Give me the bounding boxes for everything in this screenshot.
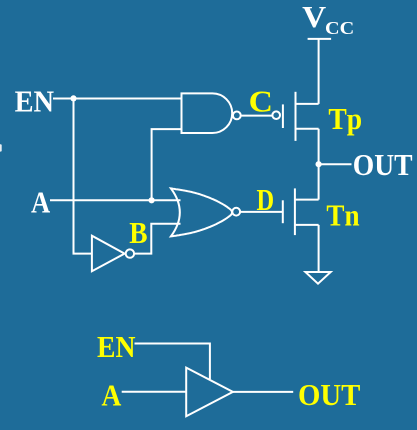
svg-text:C: C: [249, 84, 273, 119]
nor U2 output bubble: [232, 208, 240, 216]
Tn drain arm: [295, 199, 319, 201]
wire inverter output to NOR input B: [135, 224, 181, 254]
wire EN horizontal: [53, 98, 182, 100]
Tp gate bar: [282, 104, 284, 128]
wire A (bottom): [122, 391, 187, 393]
Tp source arm: [296, 103, 319, 105]
nand U1 body: [182, 93, 233, 133]
buffer U4: [186, 368, 233, 417]
Tp gate bubble: [272, 111, 280, 119]
node A junction: [149, 197, 155, 203]
wire EN vertical to inverter: [74, 98, 92, 253]
svg-text:V: V: [302, 0, 327, 34]
Tn channel bar: [294, 188, 296, 235]
Tn gate bar: [282, 200, 284, 223]
wire NMOS source to ground: [318, 225, 320, 272]
svg-text:A: A: [102, 377, 122, 412]
nand U1 output bubble: [233, 112, 241, 120]
node EN junction: [70, 95, 76, 101]
svg-text:OUT: OUT: [298, 377, 361, 412]
transistor Tp (PMOS): [272, 92, 318, 141]
ground: [305, 272, 330, 284]
svg-text:D: D: [257, 182, 275, 217]
svg-text:EN: EN: [15, 84, 55, 119]
wire OUT horizontal: [319, 163, 352, 165]
svg-text:CC: CC: [325, 18, 354, 38]
nand gate U1: [182, 93, 241, 133]
svg-text:Tn: Tn: [326, 198, 359, 233]
inverter U3 output bubble: [126, 249, 134, 257]
Tp drain arm: [296, 128, 319, 130]
svg-text:OUT: OUT: [353, 147, 413, 182]
svg-text:Tp: Tp: [328, 101, 362, 136]
node OUT junction: [316, 161, 322, 167]
transistor Tn (NMOS): [283, 188, 319, 235]
inverter U3: [92, 236, 134, 272]
power rail VCC bar: [308, 38, 332, 40]
nor gate U2: [171, 188, 240, 236]
wire EN (bottom): [135, 344, 210, 380]
Tn source arm: [295, 224, 319, 226]
wire D: NOR output to NMOS gate: [240, 211, 283, 213]
nor U2 body: [171, 188, 232, 236]
svg-text:B: B: [129, 215, 147, 250]
wire C: NAND output to PMOS gate: [240, 115, 272, 117]
wire A-branch vertical to NAND input: [152, 129, 182, 200]
svg-text:EN: EN: [97, 329, 136, 364]
wire VCC to PMOS source: [318, 39, 320, 104]
Tp channel bar: [295, 92, 297, 141]
wire PMOS drain to NMOS drain: [318, 129, 320, 200]
inverter U3 triangle: [92, 236, 125, 272]
wire A horizontal: [50, 199, 181, 201]
svg-text:A: A: [31, 185, 51, 220]
wire OUT (bottom): [233, 391, 293, 393]
left-edge artifact mark: [0, 144, 2, 151]
